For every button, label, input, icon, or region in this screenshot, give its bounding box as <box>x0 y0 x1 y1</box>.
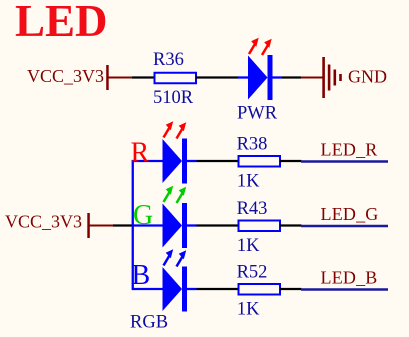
svg-text:PWR: PWR <box>237 104 278 124</box>
svg-text:1K: 1K <box>237 172 260 192</box>
wire LED PWR to GND <box>282 76 301 78</box>
wire R43 to net <box>280 224 302 226</box>
wire R52 to net <box>280 288 302 290</box>
net label LED_R <box>301 140 388 162</box>
svg-text:LED: LED <box>15 0 108 46</box>
wire R38 to net <box>280 160 302 162</box>
svg-text:R52: R52 <box>237 262 268 282</box>
LED PWR <box>237 38 282 124</box>
svg-text:1K: 1K <box>237 236 260 256</box>
svg-text:RGB: RGB <box>130 313 168 333</box>
LED R <box>163 121 197 183</box>
svg-text:LED_G: LED_G <box>321 204 379 224</box>
resistor R52 <box>237 262 280 319</box>
svg-text:R: R <box>131 137 150 168</box>
svg-text:G: G <box>133 200 153 231</box>
net label LED_B <box>301 268 388 290</box>
wire R36 to LED PWR <box>196 76 238 78</box>
svg-text:VCC_3V3: VCC_3V3 <box>5 212 82 232</box>
net label LED_G <box>301 204 388 226</box>
resistor R36 <box>153 50 196 108</box>
svg-text:R36: R36 <box>153 50 184 70</box>
svg-text:1K: 1K <box>237 300 260 320</box>
wire LED R to R38 <box>197 160 239 162</box>
svg-text:R43: R43 <box>237 199 268 219</box>
svg-text:B: B <box>132 260 151 291</box>
power port VCC_3V3 (top) <box>27 65 132 90</box>
ground GND <box>301 57 387 98</box>
wire LED G to R43 <box>197 224 239 226</box>
LED G <box>163 186 197 248</box>
wire LED B to R52 <box>197 288 239 290</box>
LED B <box>163 249 197 311</box>
svg-text:R38: R38 <box>237 134 268 154</box>
resistor R38 <box>237 134 280 191</box>
svg-text:510R: 510R <box>153 88 194 108</box>
wire VCC to R36 <box>132 76 155 78</box>
wire bus to RGB LEDs <box>133 161 163 289</box>
wire VCC to bus <box>113 224 134 226</box>
power port VCC_3V3 (bottom) <box>5 212 113 239</box>
resistor R43 <box>237 199 280 256</box>
svg-text:LED_R: LED_R <box>321 140 378 160</box>
svg-text:GND: GND <box>348 67 387 87</box>
svg-text:VCC_3V3: VCC_3V3 <box>27 66 104 86</box>
svg-text:LED_B: LED_B <box>321 268 378 288</box>
